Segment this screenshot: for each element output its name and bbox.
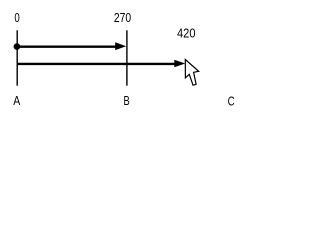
arrow 2 head bbox=[174, 60, 185, 67]
arrow 1 head bbox=[115, 42, 126, 50]
arrow 1 shaft (A to B) bbox=[18, 46, 117, 48]
arrow 2 shaft (A toward C) bbox=[18, 63, 176, 65]
svg-text:0: 0 bbox=[14, 10, 19, 25]
svg-text:270: 270 bbox=[114, 10, 131, 25]
svg-text:A: A bbox=[13, 93, 20, 108]
node dot at A bbox=[14, 43, 21, 50]
mouse cursor bbox=[185, 60, 198, 86]
svg-text:C: C bbox=[228, 93, 235, 108]
svg-text:B: B bbox=[124, 93, 130, 108]
svg-text:420: 420 bbox=[177, 25, 196, 40]
tick A bbox=[16, 30, 18, 85]
tick B bbox=[126, 30, 128, 85]
